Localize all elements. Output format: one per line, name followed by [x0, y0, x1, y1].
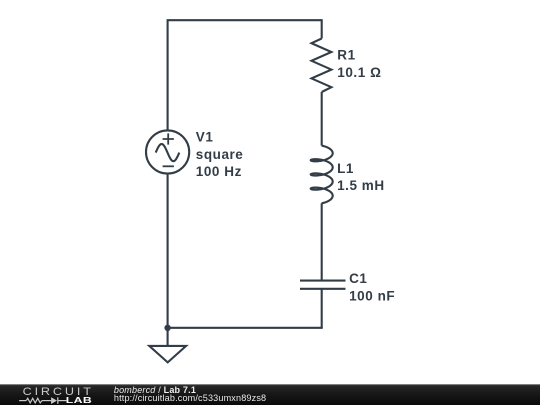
capacitor C1 bottom plate	[300, 288, 346, 290]
svg-text:http://circuitlab.com/c533umxn: http://circuitlab.com/c533umxn89zs8	[114, 393, 266, 403]
logo diode cathode bar	[57, 397, 59, 404]
svg-text:C1: C1	[349, 271, 367, 286]
wire: C1 bottom plate to bottom-right corner	[321, 289, 323, 328]
logo resistor zigzag	[26, 398, 42, 403]
voltage source V1 minus sign	[163, 165, 174, 167]
wire: junction to ground	[167, 328, 169, 346]
svg-text:100 Hz: 100 Hz	[196, 164, 242, 179]
logo wire to LAB	[58, 400, 67, 402]
svg-text:1.5 mH: 1.5 mH	[337, 178, 385, 193]
resistor R1	[312, 39, 332, 93]
wire: top rail to resistor R1 top	[321, 19, 323, 38]
logo wire lead-in	[19, 397, 66, 404]
svg-text:LAB: LAB	[66, 397, 93, 405]
wire: top rail	[167, 19, 322, 21]
wire: L1 bottom to C1 top plate	[321, 203, 323, 280]
svg-text:L1: L1	[337, 161, 354, 176]
svg-text:R1: R1	[337, 48, 355, 63]
voltage source V1 sine wave	[156, 144, 180, 161]
logo diode triangle	[51, 397, 57, 404]
logo wire mid	[42, 400, 51, 402]
svg-text:square: square	[196, 147, 244, 162]
inductor L1	[311, 146, 333, 204]
node: junction of V1, bottom rail and ground	[164, 325, 170, 331]
capacitor C1 top plate	[300, 280, 346, 282]
ground symbol	[149, 346, 186, 363]
wire: bottom rail	[168, 327, 323, 329]
wire: V1 top terminal to top-left corner	[167, 20, 169, 130]
wire: R1 bottom to L1 top	[321, 92, 323, 146]
voltage source V1 plus sign	[163, 133, 174, 144]
svg-text:10.1 Ω: 10.1 Ω	[337, 65, 381, 80]
svg-text:100 nF: 100 nF	[349, 288, 395, 303]
wire: V1 bottom terminal to junction	[167, 174, 169, 328]
voltage source V1 circle	[146, 130, 189, 173]
svg-text:V1: V1	[196, 130, 214, 145]
footer bar	[0, 384, 540, 405]
